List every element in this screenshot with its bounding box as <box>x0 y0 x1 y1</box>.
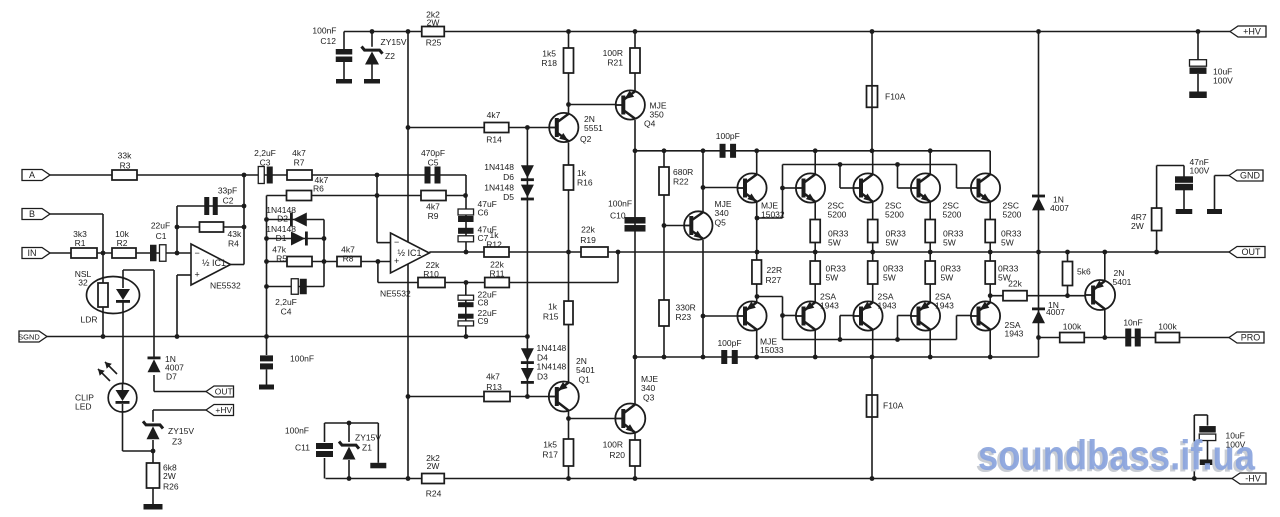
svg-text:680R: 680R <box>673 167 693 177</box>
svg-text:C2: C2 <box>223 195 234 205</box>
svg-text:D5: D5 <box>503 192 514 202</box>
svg-text:5200: 5200 <box>1003 210 1022 220</box>
svg-text:IN: IN <box>28 248 37 258</box>
svg-text:R8: R8 <box>343 254 354 264</box>
svg-text:−: − <box>195 248 200 258</box>
svg-text:1N4148: 1N4148 <box>484 183 514 193</box>
svg-text:1943: 1943 <box>1005 329 1024 339</box>
svg-text:R26: R26 <box>163 482 179 492</box>
svg-text:1N4148: 1N4148 <box>537 343 567 353</box>
svg-text:1k5: 1k5 <box>542 49 556 59</box>
svg-text:1k5: 1k5 <box>543 440 557 450</box>
svg-text:F10A: F10A <box>885 92 906 102</box>
svg-text:F10A: F10A <box>883 401 904 411</box>
svg-text:2W: 2W <box>427 18 440 28</box>
svg-text:Z1: Z1 <box>362 443 372 453</box>
svg-text:R21: R21 <box>607 58 623 68</box>
svg-text:5200: 5200 <box>885 210 904 220</box>
svg-text:R3: R3 <box>120 160 131 170</box>
svg-text:5200: 5200 <box>828 210 847 220</box>
svg-text:100R: 100R <box>603 440 623 450</box>
svg-text:5k6: 5k6 <box>1077 267 1091 277</box>
svg-text:R2: R2 <box>117 238 128 248</box>
svg-text:1k: 1k <box>490 230 500 240</box>
svg-text:1k: 1k <box>548 302 558 312</box>
svg-text:OUT: OUT <box>215 387 233 397</box>
svg-text:A: A <box>29 170 35 180</box>
svg-text:D3: D3 <box>537 372 548 382</box>
svg-text:C11: C11 <box>295 443 310 453</box>
svg-text:100nF: 100nF <box>312 26 336 36</box>
svg-text:330R: 330R <box>676 303 696 313</box>
svg-text:100V: 100V <box>1190 166 1210 176</box>
svg-text:R13: R13 <box>486 382 502 392</box>
svg-text:2W: 2W <box>1131 221 1144 231</box>
svg-text:R14: R14 <box>486 135 502 145</box>
svg-text:R15: R15 <box>543 312 559 322</box>
svg-text:R6: R6 <box>313 184 324 194</box>
svg-text:340: 340 <box>641 383 655 393</box>
svg-text:R18: R18 <box>541 58 557 68</box>
svg-text:R4: R4 <box>228 238 239 248</box>
svg-text:R11: R11 <box>490 269 505 279</box>
svg-text:−: − <box>394 237 399 247</box>
svg-text:C6: C6 <box>478 208 489 218</box>
svg-text:4k7: 4k7 <box>486 372 500 382</box>
svg-text:1943: 1943 <box>935 301 954 311</box>
svg-text:Q1: Q1 <box>579 375 591 385</box>
svg-text:5W: 5W <box>943 238 956 248</box>
svg-text:33k: 33k <box>118 151 132 161</box>
svg-text:Z3: Z3 <box>172 437 182 447</box>
svg-text:soundbass.if.ua: soundbass.if.ua <box>978 432 1256 479</box>
svg-text:100k: 100k <box>1158 322 1177 332</box>
svg-text:5551: 5551 <box>584 123 603 133</box>
svg-text:C3: C3 <box>260 158 271 168</box>
svg-text:C10: C10 <box>610 211 626 221</box>
svg-text:22R: 22R <box>767 265 783 275</box>
svg-text:ZY15V: ZY15V <box>381 37 407 47</box>
svg-text:R9: R9 <box>428 211 439 221</box>
svg-text:22k: 22k <box>581 225 595 235</box>
svg-text:R20: R20 <box>609 450 625 460</box>
svg-text:ZY15V: ZY15V <box>355 433 381 443</box>
svg-text:ZY15V: ZY15V <box>168 426 194 436</box>
svg-text:R7: R7 <box>294 158 305 168</box>
svg-text:5W: 5W <box>941 273 954 283</box>
svg-text:Q5: Q5 <box>715 218 727 228</box>
svg-text:100k: 100k <box>1063 322 1082 332</box>
svg-text:1943: 1943 <box>820 301 839 311</box>
svg-text:C8: C8 <box>478 298 489 308</box>
svg-text:+HV: +HV <box>215 405 232 415</box>
svg-text:Q2: Q2 <box>580 134 592 144</box>
svg-text:C1: C1 <box>156 231 167 241</box>
svg-text:LDR: LDR <box>80 315 97 325</box>
svg-text:R16: R16 <box>577 178 593 188</box>
svg-text:100V: 100V <box>1213 76 1233 86</box>
svg-text:½ IC1: ½ IC1 <box>398 248 422 258</box>
svg-text:C9: C9 <box>478 316 489 326</box>
svg-text:C4: C4 <box>281 307 292 317</box>
svg-text:1k: 1k <box>577 168 587 178</box>
svg-text:100nF: 100nF <box>608 199 632 209</box>
svg-text:Q4: Q4 <box>644 119 656 129</box>
svg-text:100pF: 100pF <box>717 338 741 348</box>
svg-text:100nF: 100nF <box>290 354 314 364</box>
svg-text:5W: 5W <box>883 273 896 283</box>
svg-text:1N4148: 1N4148 <box>537 362 567 372</box>
svg-text:R23: R23 <box>676 312 692 322</box>
svg-text:5401: 5401 <box>1113 277 1132 287</box>
svg-text:R17: R17 <box>542 450 558 460</box>
svg-text:D1: D1 <box>276 233 287 243</box>
svg-text:1N4148: 1N4148 <box>484 162 514 172</box>
svg-text:Z2: Z2 <box>385 51 395 61</box>
svg-text:5200: 5200 <box>943 210 962 220</box>
svg-text:33pF: 33pF <box>218 186 237 196</box>
svg-text:2,2uF: 2,2uF <box>254 148 276 158</box>
svg-text:4k7: 4k7 <box>292 148 306 158</box>
svg-text:Q3: Q3 <box>643 393 655 403</box>
svg-text:PRO: PRO <box>1241 333 1261 343</box>
svg-text:2W: 2W <box>427 461 440 471</box>
svg-text:5W: 5W <box>1001 238 1014 248</box>
svg-text:340: 340 <box>715 208 729 218</box>
svg-text:2W: 2W <box>163 471 176 481</box>
svg-text:100pF: 100pF <box>716 131 740 141</box>
svg-text:4007: 4007 <box>1046 307 1065 317</box>
svg-text:R19: R19 <box>580 235 596 245</box>
svg-text:C12: C12 <box>320 36 336 46</box>
svg-text:2,2uF: 2,2uF <box>275 297 297 307</box>
svg-text:SGND: SGND <box>18 333 40 342</box>
svg-text:5W: 5W <box>828 238 841 248</box>
svg-text:D6: D6 <box>503 172 514 182</box>
svg-text:OUT: OUT <box>1242 247 1262 257</box>
svg-text:R1: R1 <box>75 238 86 248</box>
svg-text:R12: R12 <box>486 240 502 250</box>
svg-text:32: 32 <box>78 278 88 288</box>
svg-text:4007: 4007 <box>1050 203 1069 213</box>
svg-text:R24: R24 <box>426 489 442 499</box>
svg-text:15033: 15033 <box>760 345 784 355</box>
svg-text:+: + <box>195 270 200 280</box>
svg-text:+HV: +HV <box>1243 27 1261 37</box>
svg-text:½ IC1: ½ IC1 <box>202 258 226 268</box>
svg-text:NE5532: NE5532 <box>210 281 241 291</box>
svg-text:10nF: 10nF <box>1123 318 1142 328</box>
svg-text:4k7: 4k7 <box>426 202 440 212</box>
svg-text:5W: 5W <box>886 238 899 248</box>
svg-text:NE5532: NE5532 <box>380 289 411 299</box>
svg-text:C5: C5 <box>428 158 439 168</box>
svg-text:100R: 100R <box>603 48 623 58</box>
svg-text:R10: R10 <box>423 269 439 279</box>
svg-text:R5: R5 <box>276 254 287 264</box>
svg-text:470pF: 470pF <box>421 148 445 158</box>
svg-text:D7: D7 <box>166 372 177 382</box>
svg-text:100nF: 100nF <box>285 426 309 436</box>
svg-text:R22: R22 <box>673 177 689 187</box>
svg-text:5W: 5W <box>826 273 839 283</box>
svg-text:LED: LED <box>75 402 92 412</box>
svg-text:5401: 5401 <box>576 365 595 375</box>
svg-text:B: B <box>29 209 35 219</box>
svg-text:GND: GND <box>1240 171 1261 181</box>
svg-text:R25: R25 <box>426 38 442 48</box>
svg-text:D2: D2 <box>277 214 288 224</box>
svg-text:R27: R27 <box>766 275 782 285</box>
svg-text:22uF: 22uF <box>151 221 170 231</box>
svg-text:5W: 5W <box>998 273 1011 283</box>
svg-text:4k7: 4k7 <box>487 110 501 120</box>
svg-text:15032: 15032 <box>761 210 785 220</box>
svg-text:1943: 1943 <box>878 301 897 311</box>
